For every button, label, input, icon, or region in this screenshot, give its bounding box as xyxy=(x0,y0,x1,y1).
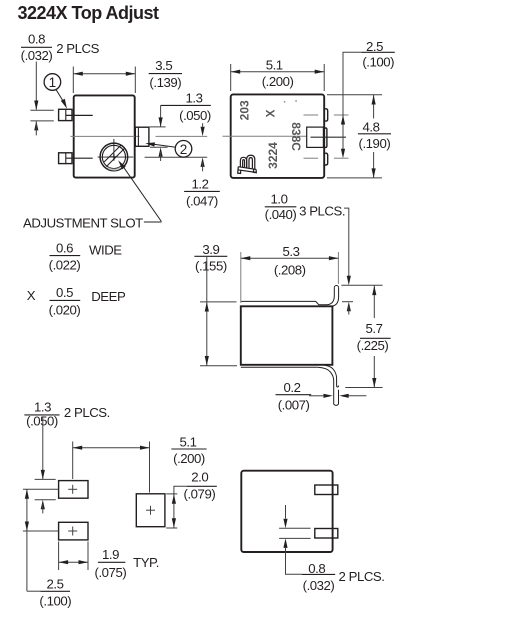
lower lead pin xyxy=(318,365,339,406)
svg-text:ADJUSTMENT SLOT: ADJUSTMENT SLOT xyxy=(23,215,143,230)
pin 3 tab center line xyxy=(304,157,349,159)
dim 5.7/(.225) xyxy=(345,286,390,388)
dim 0.8/(.032) 2 PLCS. xyxy=(279,505,384,593)
svg-text:2 PLCS.: 2 PLCS. xyxy=(64,405,110,420)
svg-text:(.007): (.007) xyxy=(278,398,310,413)
marking X xyxy=(263,109,277,117)
svg-text:TYP.: TYP. xyxy=(133,555,159,570)
pad 1 xyxy=(59,481,88,499)
svg-text:0.8: 0.8 xyxy=(28,32,45,47)
Bourns logo B (rotated outlined B) xyxy=(238,155,257,173)
pin 2 wiper block xyxy=(307,127,346,147)
marking 203 xyxy=(237,100,251,120)
svg-text:3.9: 3.9 xyxy=(202,242,219,257)
svg-text:(.225): (.225) xyxy=(357,338,389,353)
svg-text:(.022): (.022) xyxy=(49,258,81,273)
svg-text:3 PLCS.: 3 PLCS. xyxy=(299,203,345,218)
pin 1 tab (upper left) xyxy=(59,109,72,120)
svg-text:(.200): (.200) xyxy=(262,74,294,89)
dim 2.5/(.100) xyxy=(341,39,395,158)
svg-text:(.050): (.050) xyxy=(26,414,58,429)
marking 838C xyxy=(289,122,303,151)
body outline xyxy=(74,95,135,177)
dim 3.9/(.155) xyxy=(194,242,237,366)
body outline xyxy=(231,94,325,177)
svg-text:2.5: 2.5 xyxy=(47,576,64,591)
svg-text:0.5: 0.5 xyxy=(56,285,73,300)
svg-text:X: X xyxy=(263,109,277,117)
pin 3 tab (lower left) xyxy=(59,153,72,164)
svg-text:2 PLCS.: 2 PLCS. xyxy=(339,569,385,584)
svg-text:1.9: 1.9 xyxy=(102,547,119,562)
body top specks xyxy=(284,100,297,102)
svg-text:1.0: 1.0 xyxy=(271,192,288,207)
pad 2 center line ext xyxy=(23,530,58,532)
svg-text:3.5: 3.5 xyxy=(155,58,172,73)
pin 3 tab xyxy=(315,529,338,539)
svg-text:2.0: 2.0 xyxy=(191,469,208,484)
dim 4.8/(.190) xyxy=(327,95,391,178)
pin 3 center line xyxy=(66,157,93,159)
pad 2 xyxy=(59,522,88,540)
dim 3.5/(.139) xyxy=(73,58,182,93)
body outline xyxy=(241,471,332,552)
dim 1.3/(.050) 2 PLCS. xyxy=(24,400,109,514)
svg-text:WIDE: WIDE xyxy=(89,242,122,257)
dim 1.9/(.075) TYP. xyxy=(59,542,159,580)
svg-text:1.3: 1.3 xyxy=(34,400,51,415)
svg-text:5.1: 5.1 xyxy=(266,58,283,73)
svg-text:(.100): (.100) xyxy=(39,593,71,608)
pin 1 tab (top right) xyxy=(323,109,327,121)
pad 1 center line ext xyxy=(23,488,58,490)
svg-text:(.155): (.155) xyxy=(195,259,227,274)
dim 2.0/(.079) xyxy=(166,469,217,528)
svg-text:(.079): (.079) xyxy=(184,487,216,502)
svg-text:(.139): (.139) xyxy=(149,75,181,90)
svg-text:0.6: 0.6 xyxy=(56,240,73,255)
adjustment screw xyxy=(98,139,134,171)
svg-text:3224X Top Adjust: 3224X Top Adjust xyxy=(18,3,160,23)
svg-text:DEEP: DEEP xyxy=(91,289,126,304)
svg-text:(.200): (.200) xyxy=(173,451,205,466)
pin 1 tab xyxy=(315,485,338,495)
svg-text:838C: 838C xyxy=(289,122,303,151)
lower plate xyxy=(241,366,318,368)
pin 1 center line xyxy=(66,114,93,116)
upper lead hook xyxy=(332,285,338,306)
dim 5.1/(.200) top xyxy=(231,58,325,92)
dim 1.3/(.050) xyxy=(150,90,211,161)
balloon 2 xyxy=(145,141,192,158)
svg-text:5.1: 5.1 xyxy=(180,434,197,449)
svg-text:(.032): (.032) xyxy=(303,578,335,593)
svg-text:203: 203 xyxy=(237,100,251,120)
svg-text:5.7: 5.7 xyxy=(366,321,383,336)
svg-text:0.2: 0.2 xyxy=(284,380,301,395)
svg-text:(.100): (.100) xyxy=(362,55,394,70)
dim 5.3/(.208) xyxy=(241,244,339,303)
parting mid-line xyxy=(71,135,208,137)
svg-text:2: 2 xyxy=(180,142,188,157)
svg-text:(.190): (.190) xyxy=(359,136,391,151)
svg-text:(.020): (.020) xyxy=(49,302,81,317)
dim 2.5/(.100) xyxy=(25,489,71,608)
body outline xyxy=(241,306,333,365)
adjustment slot leader + label xyxy=(23,160,161,230)
top cover plate xyxy=(241,288,335,305)
svg-text:X: X xyxy=(27,288,36,303)
svg-text:1.3: 1.3 xyxy=(186,90,203,105)
pad 3 xyxy=(136,494,165,527)
slot size note 0.6/(.022) WIDE xyxy=(49,240,123,272)
slot size note X 0.5/(.020) DEEP xyxy=(27,285,126,317)
svg-text:(.047): (.047) xyxy=(186,194,218,209)
svg-text:3224: 3224 xyxy=(266,142,280,169)
svg-text:(.032): (.032) xyxy=(21,48,53,63)
dim 0.8/(.032) 2 PLCS xyxy=(21,32,100,136)
dim 5.1/(.200) xyxy=(73,434,207,492)
svg-text:1.2: 1.2 xyxy=(192,177,209,192)
dim 1.0 extension lines xyxy=(341,276,382,315)
svg-text:(.208): (.208) xyxy=(274,263,306,278)
dim 1.2/(.047) xyxy=(145,123,220,208)
svg-text:(.050): (.050) xyxy=(179,108,211,123)
pin 2 wiper tab (right) xyxy=(135,127,149,146)
svg-text:(.040): (.040) xyxy=(265,207,297,222)
dim 0.2/(.007) xyxy=(276,380,367,413)
parting mid-line xyxy=(223,135,307,137)
balloon 1 xyxy=(44,74,67,109)
svg-text:1: 1 xyxy=(49,75,57,90)
dim 1.0/(.040) 3 PLCS. xyxy=(265,192,349,277)
svg-text:(.075): (.075) xyxy=(95,565,127,580)
marking 3224 xyxy=(266,142,280,169)
svg-text:2 PLCS: 2 PLCS xyxy=(56,41,99,56)
pin 1 tab center line xyxy=(304,114,349,116)
pin 3 tab (bottom right) xyxy=(323,153,327,165)
svg-text:4.8: 4.8 xyxy=(363,119,380,134)
svg-text:5.3: 5.3 xyxy=(283,244,300,259)
